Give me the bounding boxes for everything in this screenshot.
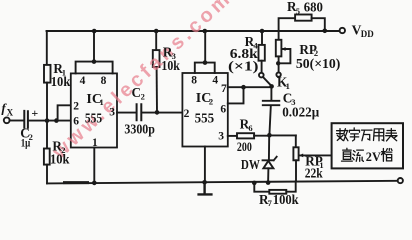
wire R5 loop left leg xyxy=(279,18,296,31)
diode DW zener triangle xyxy=(263,161,273,169)
switch K1 contact right xyxy=(276,72,280,76)
svg-text:2V: 2V xyxy=(366,150,381,164)
svg-text:555: 555 xyxy=(85,112,102,127)
watermark www.elecfans.com xyxy=(48,0,237,164)
svg-text:2: 2 xyxy=(73,100,79,112)
wire left vertical from rail to R1 xyxy=(46,31,48,65)
op-amp IC1 555 box xyxy=(71,73,117,147)
svg-text:3: 3 xyxy=(218,131,224,143)
wire R3 to pin3 line xyxy=(156,67,158,112)
svg-text:2: 2 xyxy=(184,108,190,120)
wire R1 to input node xyxy=(46,83,48,121)
box digital multimeter xyxy=(332,123,403,168)
wire top supply rail xyxy=(47,30,340,32)
svg-text:1: 1 xyxy=(92,137,98,149)
wire IC1 bracket riser to rail xyxy=(93,31,95,62)
wire C2 to IC2 pin2 xyxy=(142,112,182,114)
svg-text:C: C xyxy=(132,85,142,100)
wire RP2 wiper loop xyxy=(279,49,291,63)
wire R7 loop right xyxy=(286,181,295,191)
node rail dot R4 xyxy=(260,29,265,34)
switch K1 lever xyxy=(264,78,271,85)
char yong xyxy=(374,129,384,141)
wire IC2 pin1 down xyxy=(204,147,206,183)
char shu xyxy=(337,129,348,141)
node pin7 L dot xyxy=(241,85,246,90)
wire IC1 pin3 to C2 xyxy=(117,112,136,114)
svg-text:6: 6 xyxy=(73,116,79,128)
wire IC2 pin7 to switch pole xyxy=(228,86,272,88)
wire R6 to node xyxy=(254,135,269,137)
svg-text:DW: DW xyxy=(241,157,260,172)
svg-text:DD: DD xyxy=(361,29,374,39)
node R5 rail dot xyxy=(323,29,328,34)
svg-text:10k: 10k xyxy=(50,152,70,167)
svg-text:3300p: 3300p xyxy=(124,121,154,136)
capacitor C2 input plates xyxy=(24,111,28,128)
node switch pole dot xyxy=(269,84,274,89)
wire pin6 L connector xyxy=(228,87,244,103)
wire RP1 wiper to meter box xyxy=(299,154,332,156)
node RP2 bottom dot xyxy=(276,61,280,65)
terminal VDD circle xyxy=(340,28,345,33)
svg-text:100k: 100k xyxy=(273,192,299,207)
svg-text:3: 3 xyxy=(109,107,115,119)
wire IC2 bracket riser to rail xyxy=(204,31,206,63)
resistor R5 xyxy=(295,15,312,21)
wire node to RP1 corner xyxy=(269,134,295,136)
svg-text:6: 6 xyxy=(220,103,226,115)
wire R4 to switch contact xyxy=(261,61,263,73)
wire R7 loop left xyxy=(254,183,269,192)
wire zener to bottom rail xyxy=(267,168,269,182)
char wan xyxy=(362,130,373,141)
svg-text:1: 1 xyxy=(100,97,104,107)
svg-text:4: 4 xyxy=(212,74,218,86)
svg-text:7: 7 xyxy=(221,83,227,95)
resistor R2 xyxy=(44,149,50,165)
node rail dot R3 xyxy=(154,29,159,34)
node IC1 bracket dot xyxy=(92,59,97,64)
capacitor C2 3300p plates xyxy=(137,104,142,120)
char zhi xyxy=(342,148,353,161)
node IC2 pin1 rail dot xyxy=(202,180,207,185)
svg-text:50(×10): 50(×10) xyxy=(296,56,341,71)
svg-text:(×1): (×1) xyxy=(228,59,259,74)
wire thick overlap segment bottom rail xyxy=(65,181,88,184)
wire rail to R4 xyxy=(261,31,263,45)
wiper arrow RP2 xyxy=(281,47,285,51)
wiper arrow RP1 xyxy=(299,154,303,158)
svg-text:555: 555 xyxy=(195,111,215,126)
node rail dot IC1 xyxy=(92,29,97,34)
wire C1 to IC1 pin6 xyxy=(29,120,71,122)
wire RP2 to switch contact xyxy=(278,56,280,72)
svg-text:10k: 10k xyxy=(161,58,180,73)
diode DW zener cathode bar xyxy=(263,157,277,161)
wire IC1 pin1 down xyxy=(93,148,95,183)
svg-text:1: 1 xyxy=(286,81,290,91)
node A input junction xyxy=(45,118,50,123)
wire RP2 riser through rail xyxy=(278,31,280,40)
wire jog up to IC1 pin2 xyxy=(58,105,71,120)
text digital multimeter chinese line1 xyxy=(337,128,397,141)
char dang xyxy=(382,149,393,162)
resistor R1 xyxy=(44,65,51,83)
svg-text:0.022μ: 0.022μ xyxy=(282,104,319,119)
wire zener branch down xyxy=(268,135,270,160)
wire IC2 pin3 to R6 xyxy=(228,135,237,137)
terminal output circle bottom right xyxy=(398,178,403,183)
svg-text:8: 8 xyxy=(101,75,107,87)
node zener rail dot xyxy=(266,180,271,185)
svg-text:22k: 22k xyxy=(305,166,323,181)
resistor RP1 body xyxy=(293,147,298,160)
svg-text:X: X xyxy=(7,108,14,118)
wire R2 top lead xyxy=(46,121,48,149)
op-amp IC2 555 box xyxy=(182,73,227,147)
node R3 bottom junction xyxy=(155,110,160,115)
wire C3 to R6 node xyxy=(269,106,270,135)
svg-text:5: 5 xyxy=(296,6,300,16)
switch K1 contact left xyxy=(259,73,264,78)
wire R2 to bottom rail corner xyxy=(46,165,48,184)
node pin1 rail dot xyxy=(92,181,97,186)
svg-text:4: 4 xyxy=(80,75,86,87)
node rail dot IC2 xyxy=(203,29,208,34)
terminal input fx xyxy=(4,117,10,123)
resistor RP2 body xyxy=(276,40,282,57)
wire switch pole to C3 xyxy=(270,86,272,100)
resistor R6 xyxy=(237,133,254,138)
resistor R7 xyxy=(269,190,286,194)
svg-text:2: 2 xyxy=(141,92,145,102)
svg-text:2: 2 xyxy=(209,97,213,107)
char zi xyxy=(349,128,359,141)
wire bottom ground rail xyxy=(47,181,398,184)
text meter chinese line2 DC 2V xyxy=(342,148,393,164)
svg-text:200: 200 xyxy=(237,139,252,154)
node R6 junction xyxy=(267,133,272,138)
wire RP1 bottom lead xyxy=(295,160,297,181)
wire input to C1 xyxy=(10,120,23,122)
node jog junction xyxy=(54,118,59,123)
wire R5 loop right leg xyxy=(312,18,325,31)
svg-text:680: 680 xyxy=(304,0,323,14)
svg-text:8: 8 xyxy=(191,74,197,86)
resistor R4 xyxy=(259,45,265,61)
node IC2 bracket dot xyxy=(203,60,208,65)
svg-text:1μ: 1μ xyxy=(21,135,31,149)
wire corner down to RP1 xyxy=(295,135,297,147)
resistor R3 xyxy=(153,50,160,67)
char biao xyxy=(386,129,397,141)
svg-text:+: + xyxy=(31,106,38,120)
wire IC2 top bracket pins 8-4 xyxy=(195,63,215,73)
wire rail to R3 xyxy=(155,31,157,50)
svg-text:6: 6 xyxy=(248,123,252,133)
ground xyxy=(199,182,212,194)
char liu xyxy=(353,150,364,161)
svg-text:10k: 10k xyxy=(51,74,71,89)
wire IC1 top bracket pins 4-8 xyxy=(76,62,113,74)
node R7 left rail dot xyxy=(252,181,257,186)
capacitor C3 plates xyxy=(263,101,280,105)
